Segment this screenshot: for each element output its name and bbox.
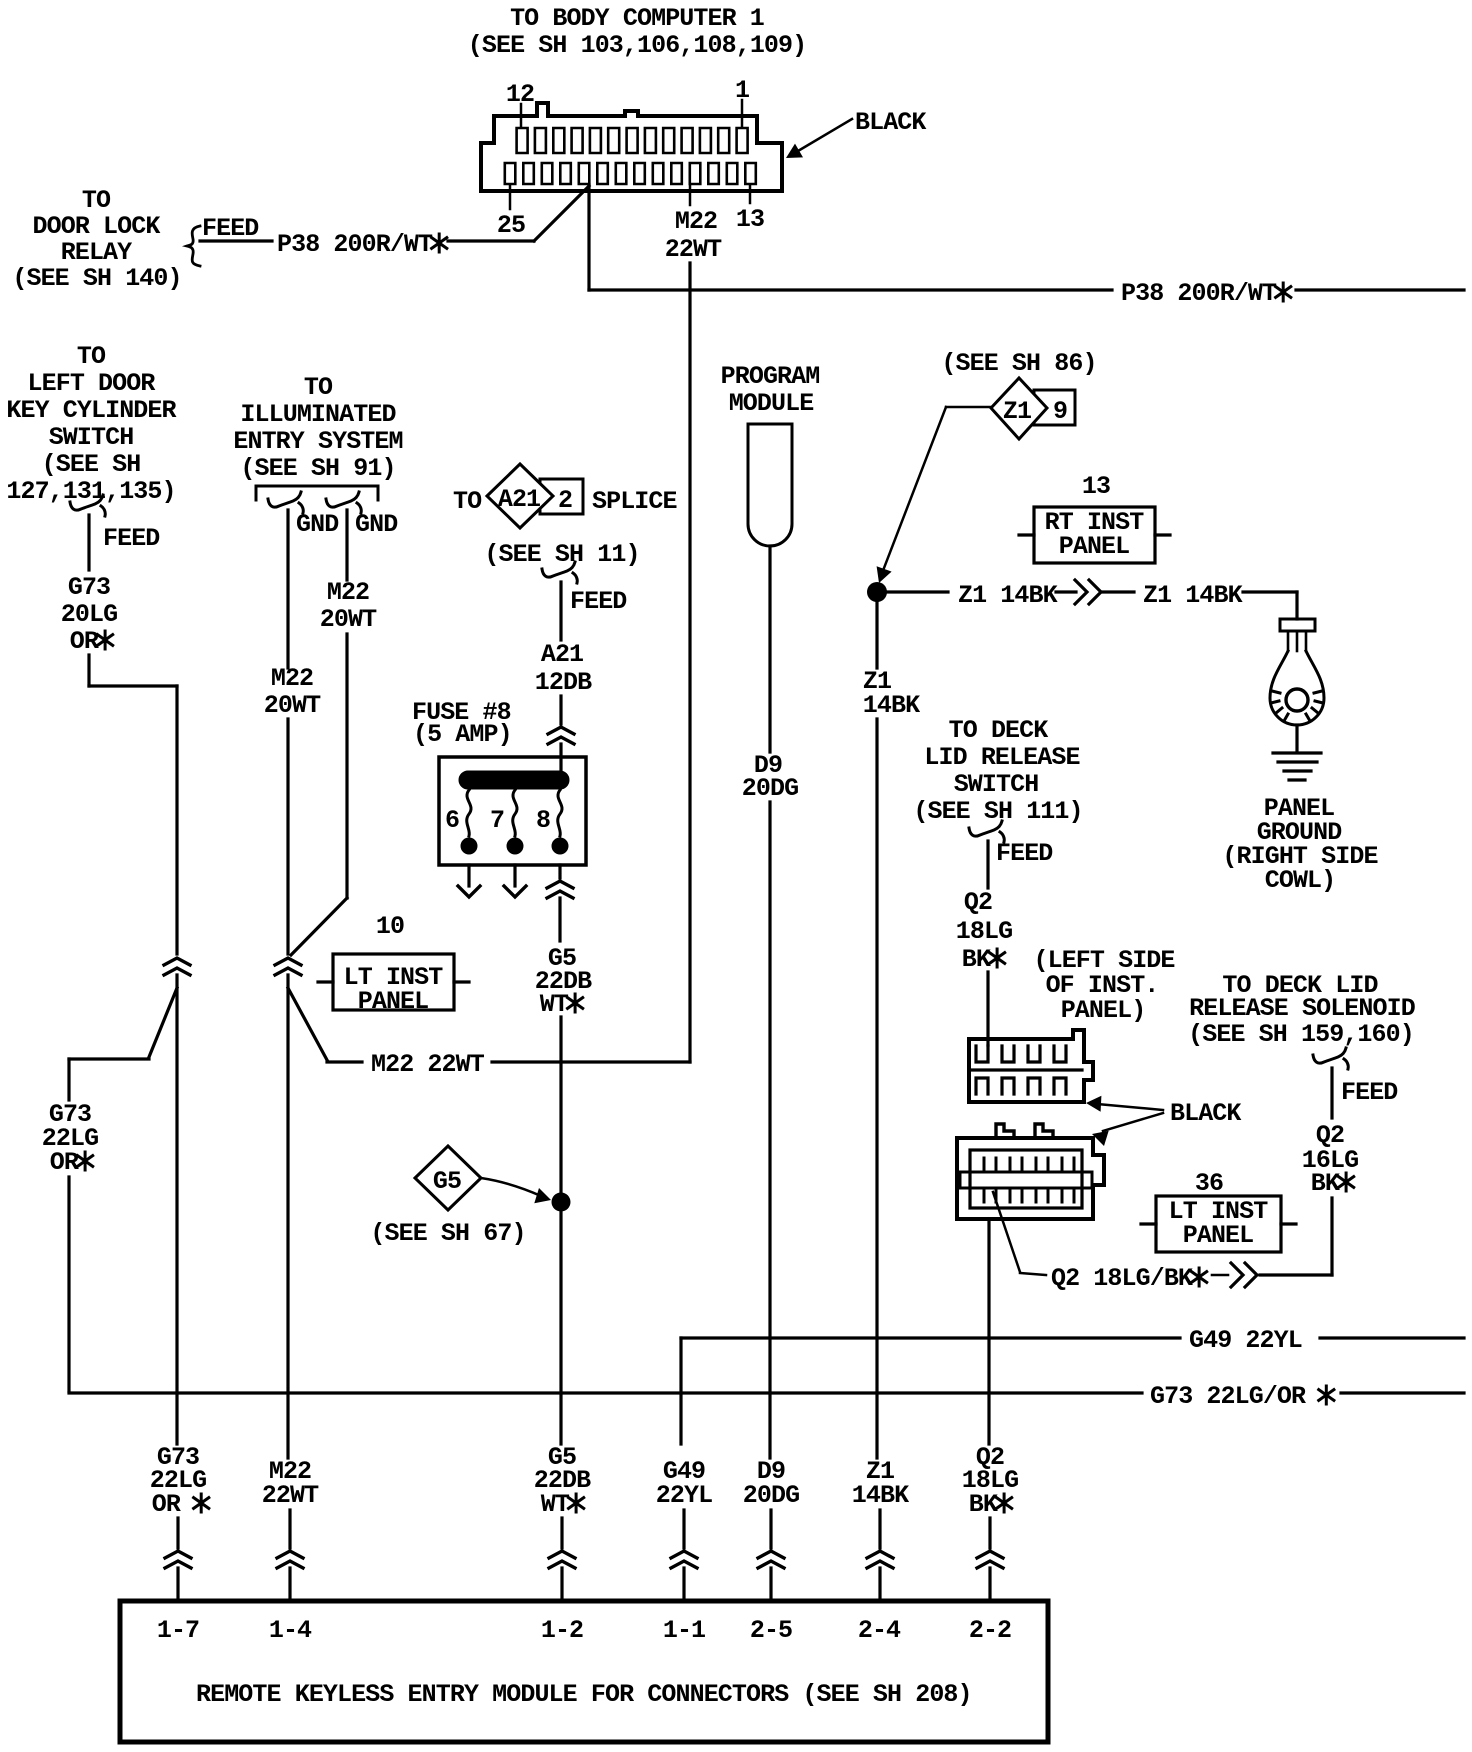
svg-text:DOOR LOCK: DOOR LOCK (33, 212, 161, 241)
svg-text:SWITCH: SWITCH (49, 423, 134, 452)
svg-text:M22 22WT: M22 22WT (371, 1050, 485, 1079)
svg-text:A21: A21 (541, 640, 583, 669)
svg-text:1-4: 1-4 (269, 1616, 312, 1645)
svg-text:BLACK: BLACK (1170, 1099, 1241, 1128)
svg-text:TO: TO (304, 373, 333, 402)
wire G73 20LG OR* (87, 515, 90, 570)
svg-text:SWITCH: SWITCH (954, 770, 1039, 799)
wire to ground (1295, 725, 1298, 752)
svg-text:M22: M22 (327, 578, 369, 607)
fuse block box (439, 757, 586, 865)
svg-text:P38 200R/WT: P38 200R/WT (277, 230, 433, 259)
junction dot Z1 (867, 582, 887, 602)
fuse pin 7 output arrow (513, 865, 516, 886)
wire G73 below break down to module (175, 975, 178, 1444)
svg-text:ENTRY SYSTEM: ENTRY SYSTEM (233, 427, 402, 456)
svg-text:9: 9 (1053, 397, 1067, 426)
svg-text:SPLICE: SPLICE (592, 487, 677, 516)
svg-text:22WT: 22WT (665, 235, 722, 264)
svg-text:COWL): COWL) (1265, 866, 1336, 895)
long wire G73 22LG/OR* to right edge (69, 1391, 1142, 1394)
feed symbol GND left (268, 492, 303, 513)
svg-text:TO BODY COMPUTER 1: TO BODY COMPUTER 1 (510, 4, 764, 33)
svg-text:WT: WT (540, 990, 569, 1019)
svg-text:1-2: 1-2 (541, 1616, 583, 1645)
svg-text:14BK: 14BK (852, 1481, 909, 1510)
svg-text:6: 6 (445, 806, 459, 835)
svg-text:Z1 14BK: Z1 14BK (958, 581, 1058, 610)
fuse pin 7 squiggle + terminal (513, 790, 517, 836)
svg-text:22WT: 22WT (262, 1481, 319, 1510)
leader from connector pin to Q2 18LG/BK* (993, 1192, 1020, 1272)
svg-text:REMOTE KEYLESS ENTRY MODULE FO: REMOTE KEYLESS ENTRY MODULE FOR CONNECTO… (196, 1680, 972, 1709)
connector C1 body computer 25-way (black) outline (481, 103, 782, 191)
wire break chevron M22 (275, 958, 301, 975)
connector C1 bottom row pins (505, 163, 756, 184)
svg-text:KEY CYLINDER: KEY CYLINDER (6, 396, 176, 425)
svg-text:G73: G73 (68, 573, 110, 602)
svg-text:OR: OR (152, 1490, 181, 1519)
svg-text:FEED: FEED (202, 214, 259, 243)
svg-text:PROGRAM: PROGRAM (721, 362, 820, 391)
svg-text:Z1: Z1 (1003, 397, 1031, 426)
wire break chevron G73 (164, 958, 190, 975)
fuse pin 6 output arrow (467, 865, 470, 886)
svg-text:(SEE SH 86): (SEE SH 86) (941, 349, 1096, 378)
svg-text:Q2 18LG/BK: Q2 18LG/BK (1051, 1264, 1193, 1293)
fuse pin 6 squiggle + terminal (467, 790, 471, 836)
splice symbol G5 (SEE SH 67) (415, 1146, 481, 1210)
svg-text:(SEE SH 103,106,108,109): (SEE SH 103,106,108,109) (468, 31, 806, 60)
svg-text:GND: GND (296, 510, 339, 539)
svg-text:M22: M22 (271, 664, 313, 693)
svg-text:2-2: 2-2 (969, 1616, 1011, 1645)
svg-text:WT: WT (541, 1490, 570, 1519)
svg-text:LID RELEASE: LID RELEASE (924, 743, 1079, 772)
svg-text:BLACK: BLACK (855, 108, 926, 137)
brace at door lock relay feed (187, 226, 200, 266)
svg-text:OR: OR (70, 627, 99, 656)
svg-text:10: 10 (376, 912, 404, 941)
svg-text:G49 22YL: G49 22YL (1189, 1326, 1302, 1355)
svg-text:22YL: 22YL (656, 1481, 712, 1510)
svg-text:RELAY: RELAY (61, 238, 132, 267)
svg-text:18LG: 18LG (956, 917, 1012, 946)
wire G5 22DB WT* down (558, 898, 561, 941)
leader from break to M22 22WT line (288, 988, 327, 1060)
svg-text:25: 25 (497, 211, 525, 240)
svg-text:13: 13 (1082, 472, 1110, 501)
svg-text:20DG: 20DG (743, 1481, 799, 1510)
svg-text:OR: OR (50, 1148, 79, 1177)
svg-text:(SEE SH 11): (SEE SH 11) (484, 540, 639, 569)
svg-text:TO: TO (82, 186, 111, 215)
svg-text:BK: BK (1311, 1169, 1340, 1198)
feed symbol solenoid (1313, 1048, 1348, 1069)
junction dot G5 (552, 1193, 571, 1212)
svg-text:(SEE SH 91): (SEE SH 91) (240, 454, 395, 483)
svg-text:BK: BK (962, 945, 991, 974)
svg-text:G5: G5 (433, 1167, 461, 1196)
fuse pin 8 output with break chevron (558, 865, 561, 878)
wire Z1 14BK horizontal with inline connector (887, 590, 948, 593)
wire D9 20DG (768, 546, 771, 752)
svg-text:G73 22LG/OR: G73 22LG/OR (1150, 1382, 1306, 1411)
svg-text:FEED: FEED (570, 587, 627, 616)
svg-text:14BK: 14BK (863, 691, 920, 720)
svg-text:BK: BK (969, 1490, 998, 1519)
svg-text:20WT: 20WT (320, 605, 377, 634)
svg-text:2-5: 2-5 (750, 1616, 792, 1645)
wire M22 20WT right branch (345, 510, 348, 580)
svg-text:20WT: 20WT (264, 691, 321, 720)
wire Z1 14BK down to module (875, 602, 878, 668)
svg-text:36: 36 (1195, 1169, 1223, 1198)
wire A21 12DB (559, 582, 562, 640)
svg-text:2-4: 2-4 (858, 1616, 901, 1645)
svg-text:PANEL: PANEL (1059, 532, 1130, 561)
leader from G5 splice to junction (481, 1178, 541, 1196)
connector B pin comb (984, 1158, 1074, 1172)
svg-text:PANEL: PANEL (1183, 1221, 1254, 1250)
wire G49 22YL (679, 1338, 682, 1444)
wire M22 20WT left branch (286, 510, 289, 668)
svg-text:TO: TO (77, 342, 106, 371)
svg-text:(SEE SH: (SEE SH (42, 450, 141, 479)
svg-text:12DB: 12DB (535, 668, 592, 697)
svg-text:TO DECK: TO DECK (949, 716, 1049, 745)
svg-text:FEED: FEED (103, 524, 160, 553)
module box: REMOTE KEYLESS ENTRY MODULE (120, 1601, 1048, 1742)
svg-text:M22: M22 (675, 207, 717, 236)
svg-text:FEED: FEED (996, 839, 1053, 868)
svg-text:RELEASE SOLENOID: RELEASE SOLENOID (1189, 994, 1416, 1023)
svg-text:127,131,135): 127,131,135) (6, 477, 175, 506)
wire from Z1 splice to junction (946, 406, 990, 409)
wire Q2 below connector to module (987, 1219, 990, 1444)
wire M22 below break to module (286, 975, 289, 1458)
svg-text:PANEL: PANEL (358, 987, 429, 1016)
wire M22 22WT horizontal tie line (327, 1060, 362, 1063)
svg-text:Z1 14BK: Z1 14BK (1143, 581, 1243, 610)
eyelet terminal (panel ground) (1280, 619, 1315, 631)
svg-text:1-7: 1-7 (157, 1616, 199, 1645)
inline connector on Q2 line (1231, 1263, 1257, 1287)
fuse pin 8 squiggle + terminal (558, 790, 562, 836)
svg-text:8: 8 (536, 806, 550, 835)
svg-text:ILLUMINATED: ILLUMINATED (240, 400, 396, 429)
svg-text:20DG: 20DG (742, 774, 798, 803)
wire P38 pin stub down and long feed line right (587, 185, 590, 290)
branch G73 to long line: diagonal + corner (149, 988, 177, 1057)
svg-text:1-1: 1-1 (663, 1616, 705, 1645)
feed symbol key cylinder (70, 495, 105, 516)
svg-text:LEFT DOOR: LEFT DOOR (28, 369, 156, 398)
fuse element bar (459, 771, 569, 789)
svg-text:20LG: 20LG (61, 600, 117, 629)
connector A (upper) drawing (969, 1030, 1093, 1102)
svg-text:(SEE SH 111): (SEE SH 111) (913, 797, 1082, 826)
svg-text:MODULE: MODULE (729, 389, 814, 418)
svg-text:FEED: FEED (1341, 1078, 1398, 1107)
svg-text:(SEE SH 67): (SEE SH 67) (370, 1219, 525, 1248)
feed symbol A21 (542, 562, 577, 583)
svg-text:Q2: Q2 (964, 888, 992, 917)
svg-text:7: 7 (490, 806, 504, 835)
svg-text:A21: A21 (498, 485, 540, 514)
svg-text:13: 13 (736, 205, 764, 234)
connector C1 top row pins (517, 128, 748, 153)
svg-text:2: 2 (558, 486, 572, 515)
svg-text:(SEE SH 140): (SEE SH 140) (12, 264, 181, 293)
wire Q2 18LG BK* (986, 841, 989, 888)
svg-text:P38 200R/WT: P38 200R/WT (1121, 279, 1277, 308)
wire P38 from door lock relay to pin (with label P38 200R/WT*) (200, 239, 272, 242)
feed symbol deck lid switch (969, 821, 1004, 842)
connector B (lower) drawing (996, 1124, 1014, 1138)
svg-text:GND: GND (355, 510, 398, 539)
wire entry chevrons above module (165, 1551, 191, 1568)
ground symbol (panel ground) (1273, 751, 1321, 754)
wire break chevron A21 (548, 727, 574, 744)
bracket over GND feeds (256, 486, 378, 500)
svg-text:PANEL): PANEL) (1061, 996, 1146, 1025)
wire Q2 16LG BK* (1330, 1068, 1333, 1118)
wire M22 22WT from body computer pin 13 down (689, 185, 692, 205)
svg-text:TO: TO (453, 487, 482, 516)
svg-text:(5 AMP): (5 AMP) (413, 720, 512, 749)
feed symbol GND right (326, 492, 361, 513)
svg-text:(SEE SH 159,160): (SEE SH 159,160) (1188, 1020, 1414, 1049)
